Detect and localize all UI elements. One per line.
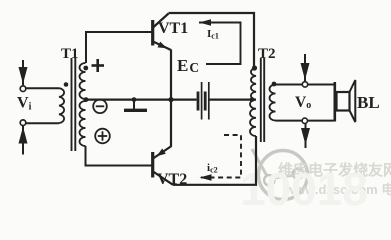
transformer T1 secondary lower winding — [80, 101, 86, 146]
svg-text:BL: BL — [357, 93, 380, 112]
svg-text:VT1: VT1 — [158, 20, 188, 37]
battery EC — [198, 82, 209, 120]
transformer T2 primary winding upper — [251, 68, 256, 100]
ic2 current loop dashed arrow — [200, 135, 241, 178]
transistor VT1 emitter arrow — [158, 42, 168, 49]
node T1 center tap dot — [84, 97, 89, 102]
input bottom arrow — [20, 126, 26, 155]
watermark logo small circles — [264, 169, 303, 186]
input top arrow — [20, 60, 26, 85]
wire output top lead — [276, 84, 335, 86]
transistor VT2 — [153, 146, 173, 185]
wire input bottom lead — [26, 122, 59, 124]
wire VT1 base lead — [86, 32, 152, 63]
output top arrow — [302, 54, 308, 82]
wire emitter vertical — [170, 50, 172, 147]
wire top collector rail — [169, 13, 255, 68]
wire middle rail left — [86, 98, 197, 100]
ground — [124, 97, 147, 110]
node T2 primary top dot — [252, 65, 257, 70]
Ic1 current loop arrow — [199, 23, 241, 65]
transformer T1 primary winding — [59, 88, 64, 123]
minus circle annotation — [93, 100, 107, 114]
node emitter junction dot — [168, 97, 173, 102]
plus circle annotation — [95, 129, 110, 144]
output top terminal — [302, 82, 307, 87]
input bottom terminal — [20, 120, 26, 126]
plus polarity mark — [92, 59, 105, 72]
watermark logo circle — [252, 149, 308, 200]
node T1 primary dot — [64, 82, 69, 87]
transistor VT2 emitter arrow — [157, 149, 166, 157]
transistor VT1 — [153, 14, 171, 51]
wire input top lead — [26, 87, 59, 89]
svg-text:10018: 10018 — [240, 163, 368, 206]
transformer T1 core — [71, 58, 73, 151]
speaker BL — [335, 80, 356, 122]
wire bottom collector rail — [173, 136, 256, 185]
node T2 secondary top dot — [272, 82, 277, 87]
wire middle rail right — [210, 98, 257, 100]
transformer T2 core — [260, 58, 262, 142]
node T1 secondary top dot — [83, 66, 88, 71]
output bottom arrow — [302, 123, 308, 148]
input top terminal — [20, 86, 26, 92]
transformer T2 primary winding lower — [250, 100, 256, 136]
transformer T1 secondary upper winding — [80, 63, 86, 99]
output bottom terminal — [302, 118, 307, 123]
wire VT2 base lead — [86, 146, 152, 166]
wire output bottom lead — [276, 120, 335, 122]
transformer T2 secondary winding — [270, 85, 276, 121]
node T2 center tap dot — [250, 97, 255, 102]
